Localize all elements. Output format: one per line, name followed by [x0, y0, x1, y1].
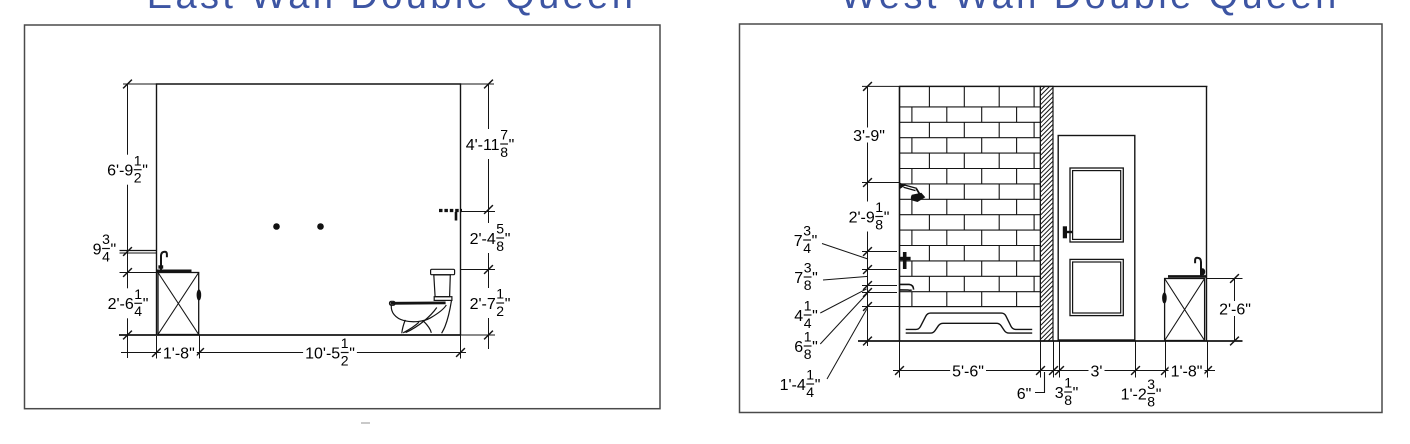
extension line top right — [461, 83, 495, 85]
extension line floor right — [461, 334, 495, 336]
leader line 6 inch — [1035, 372, 1045, 393]
west wall right edge — [1206, 86, 1208, 341]
right panel border frame — [740, 24, 1383, 413]
svg-text:1: 1 — [804, 329, 812, 345]
extension tile bottom level — [862, 306, 900, 308]
svg-text:8: 8 — [804, 346, 812, 362]
toilet paper holder TP1 — [439, 211, 462, 221]
svg-text:3: 3 — [102, 231, 110, 247]
svg-text:4: 4 — [102, 248, 110, 264]
extension line faucet level upper — [120, 250, 158, 252]
extension shower head level — [862, 182, 899, 184]
extension line faucet level lower — [120, 252, 158, 254]
svg-text:": " — [1073, 385, 1079, 402]
svg-text:3: 3 — [1055, 385, 1064, 402]
floor line west wall — [858, 340, 1243, 342]
svg-text:2: 2 — [496, 303, 504, 319]
svg-text:2'-6": 2'-6" — [1219, 301, 1251, 318]
dimension 6'-9 1/2" — [105, 152, 150, 185]
vanity V1 countertop — [157, 269, 192, 272]
extension below floor at vanity left — [1165, 341, 1167, 378]
svg-text:2'-4: 2'-4 — [470, 231, 496, 248]
extension below floor at vanity left — [156, 336, 158, 359]
svg-text:3: 3 — [803, 223, 811, 239]
svg-text:7: 7 — [794, 270, 803, 287]
east wall outline — [157, 84, 461, 335]
extension below floor at hatch right — [1053, 341, 1055, 378]
ticks on west bottom dim line — [895, 366, 1212, 375]
ticks on west left dim line — [863, 82, 872, 345]
dimension 6" — [1017, 386, 1032, 403]
svg-text:": " — [812, 270, 818, 287]
svg-text:1'-8": 1'-8" — [163, 345, 195, 362]
svg-text:": " — [812, 233, 818, 250]
ticks on right dim line — [484, 80, 493, 340]
floor line east wall — [119, 334, 461, 336]
door D1 — [1058, 136, 1135, 341]
svg-text:": " — [815, 377, 821, 394]
door D1 bottom panel — [1070, 259, 1123, 315]
svg-text:9: 9 — [93, 241, 102, 258]
extension below floor at hatch left — [1040, 341, 1042, 378]
svg-text:1: 1 — [804, 298, 812, 314]
extension valve top level — [862, 251, 897, 253]
svg-text:4: 4 — [806, 384, 814, 400]
svg-text:2'-9: 2'-9 — [849, 209, 875, 226]
leader line 4 1/4 — [820, 289, 866, 313]
faucet F1 (east wall vanity) — [158, 252, 167, 271]
leader line 6 1/8 — [820, 294, 866, 344]
svg-text:8: 8 — [875, 216, 883, 232]
svg-text:5'-6": 5'-6" — [952, 363, 984, 380]
svg-text:1: 1 — [806, 367, 814, 383]
svg-text:4: 4 — [803, 240, 811, 256]
dim line right of east wall — [488, 84, 490, 349]
svg-text:1'-8": 1'-8" — [1171, 363, 1203, 380]
svg-text:": " — [505, 296, 511, 313]
svg-text:3'-9": 3'-9" — [853, 128, 885, 145]
dimension 2'-9 1/8" — [847, 199, 892, 232]
svg-text:2: 2 — [341, 352, 349, 368]
dimension 7 3/8" — [794, 260, 818, 293]
svg-text:3': 3' — [1091, 363, 1103, 380]
dimension 4 1/4" — [794, 298, 818, 331]
stray gray mark below left panel — [361, 422, 370, 424]
svg-text:6: 6 — [794, 339, 803, 356]
svg-text:West Wall Double Queen: West Wall Double Queen — [840, 0, 1339, 17]
svg-text:3: 3 — [804, 260, 812, 276]
vanity V2 countertop — [1168, 275, 1207, 278]
dimension 2'-6" — [1217, 301, 1253, 318]
svg-text:": " — [1156, 386, 1162, 403]
extension line tp holder level — [461, 211, 495, 213]
svg-text:1: 1 — [341, 335, 349, 351]
svg-text:6'-9: 6'-9 — [107, 163, 133, 180]
bottom dim line west wall — [893, 370, 1215, 372]
extension spout top level — [862, 285, 897, 287]
dimension 1'-2 3/8" — [1121, 376, 1162, 409]
svg-text:": " — [505, 231, 511, 248]
dim line left of west wall — [867, 86, 869, 346]
dimension 7 3/4" — [794, 223, 818, 256]
extension counter level right — [1207, 278, 1243, 280]
tiled shower wall — [900, 86, 1041, 306]
extension below floor at door left — [1059, 341, 1061, 378]
leader line 7 3/4 — [822, 244, 868, 260]
leader line 7 3/8 — [823, 276, 868, 280]
svg-text:7: 7 — [500, 127, 508, 143]
svg-text:4'-11: 4'-11 — [466, 137, 500, 154]
faucet F2 (west wall vanity) — [1195, 258, 1205, 276]
extension line counter level — [120, 272, 159, 274]
door D1 handle — [1063, 226, 1073, 238]
svg-text:2: 2 — [134, 170, 142, 186]
hatched wall section (6 inch wall) — [1040, 74, 1053, 353]
bottom dim line east wall — [121, 352, 466, 354]
svg-text:4: 4 — [794, 308, 803, 325]
svg-text:East Wall Double Queen: East Wall Double Queen — [147, 0, 637, 17]
dimension 6 1/8" — [794, 329, 818, 362]
svg-text:1: 1 — [134, 286, 142, 302]
extension line tank top level — [461, 269, 495, 271]
door D1 top panel — [1070, 168, 1123, 242]
vanity V2 door pull — [1162, 292, 1167, 303]
svg-text:": " — [142, 163, 148, 180]
tub spout — [900, 284, 914, 290]
svg-text:": " — [143, 296, 149, 313]
extension below floor at tile left — [899, 341, 901, 378]
svg-text:": " — [349, 345, 355, 362]
wall sconce dot left — [273, 223, 280, 230]
svg-text:": " — [509, 137, 515, 154]
extension spout bottom level — [862, 292, 897, 294]
svg-text:1: 1 — [1064, 375, 1072, 391]
west wall top edge — [900, 85, 1208, 87]
svg-text:8: 8 — [1147, 393, 1155, 409]
svg-text:1'-2: 1'-2 — [1121, 386, 1147, 403]
dimension 3'-9" — [851, 128, 887, 145]
svg-text:3: 3 — [1147, 376, 1155, 392]
dimension 10'-5 1/2" — [303, 335, 357, 368]
svg-text:1: 1 — [496, 286, 504, 302]
extension top left west — [862, 85, 900, 87]
svg-text:2'-6: 2'-6 — [108, 296, 134, 313]
svg-text:8: 8 — [500, 144, 508, 160]
svg-text:1: 1 — [134, 152, 142, 168]
extension below floor at wall right — [460, 335, 462, 359]
dimension 4'-11 7/8" — [464, 127, 517, 160]
svg-text:1'-4: 1'-4 — [780, 377, 806, 394]
extension valve bottom level — [862, 269, 897, 271]
vanity cabinet V1 (east wall) — [158, 273, 199, 335]
bathtub outline outer — [906, 313, 1032, 329]
ticks on left dim line — [123, 80, 132, 340]
svg-text:6": 6" — [1017, 386, 1032, 403]
dimension 9 3/4" — [93, 231, 117, 264]
svg-text:8: 8 — [804, 277, 812, 293]
svg-text:1: 1 — [875, 199, 883, 215]
svg-text:2'-7: 2'-7 — [470, 296, 496, 313]
extension below floor at wall right — [1207, 341, 1209, 378]
svg-text:5: 5 — [496, 221, 504, 237]
bathtub outline inner — [906, 323, 1032, 333]
vanity cabinet V2 (west wall) — [1165, 279, 1205, 341]
vanity V1 door pull — [197, 289, 202, 300]
toilet WC1 (east wall) — [390, 269, 455, 333]
ticks on vanity V2 dim line — [1230, 274, 1239, 345]
dimension 5'-6" — [950, 363, 986, 380]
dimension 2'-6 1/4" — [106, 286, 151, 319]
shower head SH1 — [900, 182, 926, 202]
dimension 2'-7 1/2" — [468, 286, 513, 319]
ticks on bottom dim line — [152, 348, 465, 357]
dimension 3 1/8" — [1055, 375, 1079, 408]
svg-text:": " — [111, 241, 117, 258]
extension below floor at vanity right — [199, 335, 201, 359]
svg-text:7: 7 — [794, 233, 803, 250]
left panel border frame — [25, 25, 661, 409]
svg-text:": " — [812, 339, 818, 356]
dim line left of east wall — [127, 84, 129, 358]
extension line wall top to dim — [123, 83, 157, 85]
dimension 1'-8" — [161, 345, 197, 362]
dimension 1'-4 1/4" — [780, 367, 821, 400]
leader line 1-4 1/4 — [827, 309, 867, 379]
svg-text:": " — [812, 308, 818, 325]
dimension 3' — [1089, 363, 1105, 380]
dim line right of vanity V2 — [1234, 279, 1236, 342]
wall sconce dot right — [317, 223, 324, 230]
svg-text:4: 4 — [134, 303, 142, 319]
svg-text:8: 8 — [496, 238, 504, 254]
svg-text:8: 8 — [1064, 392, 1072, 408]
wall left edge line — [899, 86, 901, 341]
dimension 1'-8" west — [1169, 363, 1205, 380]
svg-text:10'-5: 10'-5 — [305, 345, 340, 362]
door jamb line — [1052, 86, 1054, 341]
dimension 2'-4 5/8" — [468, 221, 513, 254]
shower valve handle — [900, 252, 911, 269]
svg-text:": " — [884, 209, 890, 226]
extension below floor at door right — [1135, 341, 1137, 378]
